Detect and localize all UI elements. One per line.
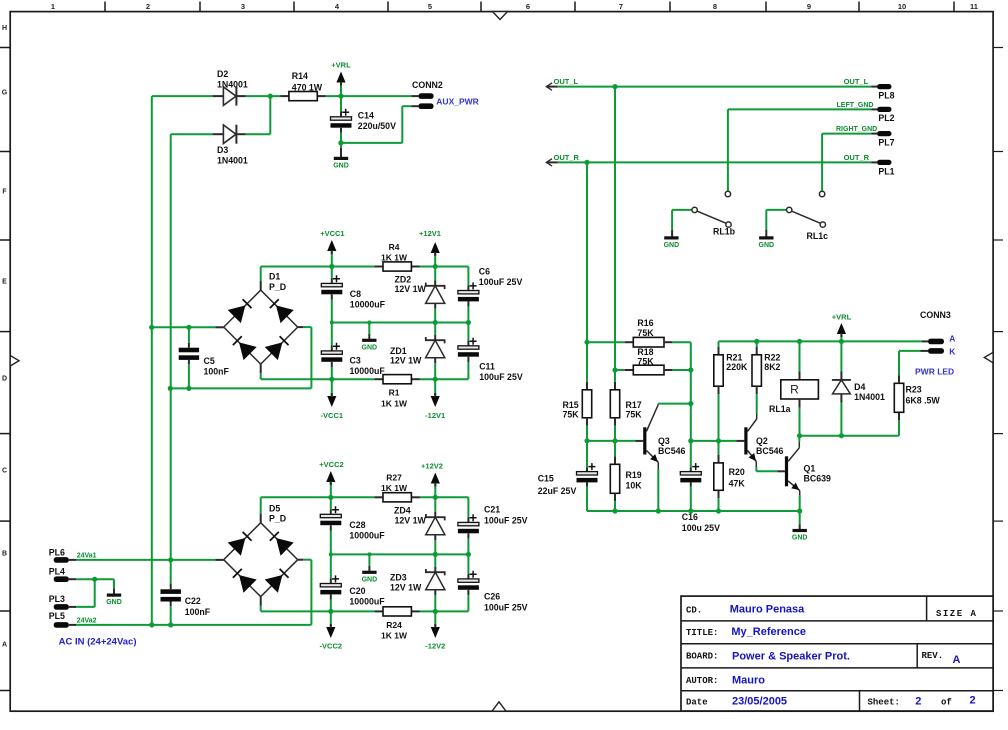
svg-text:8: 8 [713, 2, 717, 11]
resistor R1 1K 1W [375, 375, 420, 409]
capacitor C28 10000uF [320, 497, 385, 554]
wire D2 anode [152, 95, 213, 97]
svg-text:A: A [953, 654, 961, 666]
svg-text:TITLE:: TITLE: [686, 628, 718, 638]
connector PL7 [877, 131, 895, 148]
right edge alignment pointer [984, 352, 993, 363]
diode D3 1N4001 [213, 125, 248, 166]
capacitor C26 100uF 25V [458, 554, 528, 612]
svg-text:1N4001: 1N4001 [217, 80, 248, 90]
svg-text:OUT_R: OUT_R [554, 153, 580, 162]
net label 24Va1 [77, 553, 97, 560]
diode D4 1N4001 [832, 341, 885, 435]
net label K [949, 347, 956, 357]
resistor R27 1K 1W [375, 473, 420, 502]
wire Q3 collector link [658, 403, 691, 406]
svg-text:CONN3: CONN3 [920, 310, 951, 320]
net label OUT_L right [844, 77, 869, 86]
svg-text:C8: C8 [350, 289, 361, 299]
svg-text:RL1a: RL1a [769, 404, 791, 414]
wire Q2 emitter to Q1 base [756, 462, 785, 472]
svg-text:D3: D3 [217, 145, 228, 155]
svg-text:75K: 75K [626, 409, 643, 419]
wire D1 plus to rail [260, 267, 262, 291]
wire OUT_L sense vertical [614, 87, 616, 382]
resistor R17 75K [610, 382, 642, 441]
svg-text:10000uF: 10000uF [350, 366, 386, 376]
svg-text:OUT_R: OUT_R [844, 153, 870, 162]
top center alignment pointer [493, 12, 508, 20]
zener ZD1 12V 1W [390, 323, 445, 380]
svg-text:2: 2 [915, 695, 921, 707]
wire C6 top feed [467, 267, 469, 291]
ground AC input [106, 589, 122, 607]
title block frame [681, 596, 993, 711]
zener ZD2 12V 1W [395, 264, 445, 323]
svg-text:22uF 25V: 22uF 25V [538, 486, 577, 496]
power +VCC1 arrow [320, 229, 344, 269]
power +VRL arrow [331, 61, 351, 97]
resistor R22 8K2 [752, 341, 781, 413]
connector PL5 [49, 611, 76, 627]
wire mid rail GND1 [330, 320, 471, 325]
ground RL1c [759, 210, 775, 249]
svg-text:D2: D2 [217, 69, 228, 79]
svg-text:B: B [2, 551, 7, 558]
power -VCC1 arrow [321, 377, 344, 420]
svg-text:C3: C3 [350, 355, 361, 365]
svg-text:Q2: Q2 [756, 436, 768, 446]
relay coil RL1a [769, 341, 818, 435]
resistor R24 1K 1W [375, 607, 420, 641]
svg-text:100uF 25V: 100uF 25V [479, 277, 523, 287]
connector PL8 [877, 84, 895, 101]
svg-text:-12V1: -12V1 [425, 411, 445, 420]
wire Q2 base rail [691, 438, 745, 443]
svg-text:A: A [2, 642, 7, 649]
svg-text:24Va2: 24Va2 [77, 618, 97, 625]
svg-text:PL6: PL6 [49, 547, 65, 557]
svg-text:C21: C21 [484, 505, 500, 515]
node C14 negative junction [338, 140, 343, 145]
svg-text:75K: 75K [563, 409, 580, 419]
net label RIGHT_GND [836, 126, 877, 133]
capacitor C15 22uF 25V [538, 441, 598, 511]
svg-text:+VRL: +VRL [832, 312, 852, 321]
left edge row ticks [0, 48, 10, 691]
svg-text:10000uF: 10000uF [349, 531, 385, 541]
svg-text:R27: R27 [386, 473, 402, 483]
svg-text:G: G [2, 90, 8, 97]
svg-text:C6: C6 [479, 266, 490, 276]
svg-text:1K 1W: 1K 1W [381, 398, 408, 408]
power -12V2 arrow [425, 609, 445, 651]
svg-text:H: H [2, 25, 7, 32]
wire D3 cathode [246, 133, 270, 135]
svg-text:-VCC2: -VCC2 [320, 642, 343, 651]
wire 24Va2 vertical from D2 anode down to PL5 line [151, 96, 153, 625]
bridge rectifier D5 P_D [224, 503, 298, 596]
ground mid rail 1 [362, 321, 378, 352]
svg-text:GND: GND [362, 344, 378, 351]
svg-text:R16: R16 [637, 318, 653, 328]
svg-text:PL3: PL3 [49, 594, 65, 604]
svg-text:PL7: PL7 [878, 138, 894, 148]
net label LEFT_GND [837, 102, 874, 109]
svg-text:R14: R14 [292, 71, 308, 81]
svg-text:Mauro: Mauro [732, 674, 765, 686]
svg-text:R17: R17 [626, 400, 642, 410]
svg-text:Power & Speaker Prot.: Power & Speaker Prot. [732, 651, 850, 663]
svg-text:GND: GND [792, 535, 808, 542]
svg-text:BC639: BC639 [804, 474, 831, 484]
svg-text:24Va1: 24Va1 [77, 553, 97, 560]
svg-text:100u 25V: 100u 25V [682, 523, 720, 533]
wire PL5 to bridge D5 right [76, 560, 311, 628]
node D2/D3 cathode junction [268, 94, 273, 135]
wire amp bottom rail [587, 508, 800, 513]
relay contact RL1c [766, 191, 828, 241]
wire PL4/PL3 ground tie [76, 577, 114, 607]
svg-text:C26: C26 [484, 592, 500, 602]
svg-text:C5: C5 [204, 356, 215, 366]
svg-text:GND: GND [106, 599, 122, 606]
wire R16/R18 right bus down to C16 [688, 342, 693, 467]
svg-text:A: A [949, 334, 955, 344]
svg-text:12V 1W: 12V 1W [390, 583, 422, 593]
svg-text:AC IN (24+24Vac): AC IN (24+24Vac) [59, 637, 137, 648]
svg-text:Q1: Q1 [804, 464, 816, 474]
title block BOARD row [686, 651, 961, 666]
wire D1 minus to rail [260, 364, 262, 379]
capacitor C21 100uF 25V [458, 505, 528, 555]
svg-text:BOARD:: BOARD: [686, 651, 718, 661]
zener ZD4 12V 1W [394, 495, 445, 555]
svg-text:C20: C20 [349, 586, 365, 596]
capacitor C11 100uF 25V [458, 323, 523, 383]
wire D5 plus to rail [260, 497, 262, 522]
svg-text:ZD3: ZD3 [390, 573, 407, 583]
resistor R23 6K8 .5W [894, 351, 940, 436]
svg-text:3: 3 [241, 2, 245, 11]
svg-text:10000uF: 10000uF [349, 596, 385, 606]
svg-text:23/05/2005: 23/05/2005 [732, 695, 787, 707]
svg-text:R24: R24 [386, 620, 402, 630]
svg-text:R20: R20 [729, 467, 745, 477]
svg-text:SIZE A: SIZE A [936, 609, 977, 619]
bottom center alignment pointer [492, 702, 506, 711]
title block TITLE row [686, 626, 806, 638]
svg-text:D5: D5 [269, 503, 280, 513]
label AC IN (24+24Vac) [59, 637, 137, 648]
svg-text:100uF 25V: 100uF 25V [479, 372, 523, 382]
svg-text:11: 11 [970, 2, 978, 11]
svg-text:C28: C28 [349, 520, 365, 530]
svg-text:GND: GND [362, 576, 378, 583]
svg-text:AUTOR:: AUTOR: [686, 676, 718, 686]
zener ZD3 12V 1W [390, 554, 445, 611]
connector PL2 [877, 107, 895, 123]
net label 24Va2 [77, 618, 97, 625]
svg-text:OUT_L: OUT_L [554, 77, 579, 86]
transistor Q2 BC546 [744, 413, 783, 461]
svg-text:+12V1: +12V1 [419, 229, 441, 238]
svg-text:R23: R23 [906, 385, 922, 395]
svg-text:12V 1W: 12V 1W [395, 284, 427, 294]
svg-text:9: 9 [807, 2, 811, 11]
svg-text:CONN2: CONN2 [412, 80, 443, 90]
svg-text:P_D: P_D [269, 282, 286, 292]
ground mid rail 2 [362, 552, 378, 583]
svg-text:Mauro Penasa: Mauro Penasa [730, 604, 805, 616]
svg-text:F: F [2, 189, 7, 196]
svg-text:PL5: PL5 [49, 611, 65, 621]
svg-text:RL1c: RL1c [807, 231, 829, 241]
svg-text:GND: GND [333, 162, 349, 169]
capacitor C20 10000uF [320, 554, 385, 611]
label PWR LED [915, 367, 954, 377]
title block CD row [686, 604, 977, 620]
node +VRL junction [338, 94, 343, 99]
svg-text:My_Reference: My_Reference [731, 626, 806, 638]
svg-text:1N4001: 1N4001 [217, 156, 248, 166]
transistor Q1 BC639 [785, 448, 831, 491]
wire OUT_R [558, 160, 877, 165]
svg-text:C11: C11 [479, 362, 495, 372]
net label AUX_PWR [436, 97, 479, 107]
wire +VCC1 top rail [261, 266, 469, 268]
wire -VCC2 bottom rail [261, 610, 469, 612]
svg-text:GND: GND [664, 242, 680, 249]
net label OUT_R right [844, 153, 870, 162]
wire OUT_L [558, 84, 877, 89]
svg-text:OUT_L: OUT_L [844, 77, 869, 86]
svg-text:220u/50V: 220u/50V [358, 121, 396, 131]
svg-text:P_D: P_D [269, 514, 286, 524]
svg-text:RL1b: RL1b [713, 227, 736, 237]
resistor R4 1K 1W [375, 242, 420, 271]
diode D2 1N4001 [213, 69, 248, 106]
svg-text:47K: 47K [729, 479, 746, 489]
svg-text:2: 2 [146, 2, 150, 11]
svg-text:470 1W: 470 1W [292, 82, 323, 92]
power -VCC2 arrow [320, 609, 343, 651]
svg-text:C14: C14 [358, 110, 374, 120]
svg-text:REV.: REV. [922, 651, 944, 661]
capacitor C14 220u/50V [331, 96, 397, 143]
svg-text:PL4: PL4 [49, 566, 65, 576]
wire Q3 emitter to rail [657, 462, 659, 511]
svg-text:7: 7 [619, 2, 623, 11]
wire LED cathode [899, 350, 928, 352]
hier label OUT_R left [546, 153, 579, 166]
title block AUTOR row [686, 674, 765, 686]
svg-text:8K2: 8K2 [764, 362, 780, 372]
capacitor C3 10000uF [321, 323, 385, 380]
svg-text:6: 6 [526, 2, 530, 11]
svg-text:Date: Date [686, 697, 708, 707]
wire AC leg upper to bridge left [149, 325, 224, 330]
transistor Q3 BC546 [643, 405, 685, 463]
top edge column ticks [105, 2, 954, 12]
svg-text:-VCC1: -VCC1 [321, 411, 344, 420]
svg-text:R1: R1 [389, 388, 400, 398]
svg-text:+VRL: +VRL [331, 61, 351, 70]
connector CONN2 [412, 80, 443, 109]
connector PL1 [877, 160, 895, 177]
svg-text:BC546: BC546 [658, 446, 685, 456]
power +12V1 arrow [419, 229, 441, 267]
svg-text:PL1: PL1 [878, 166, 894, 176]
svg-text:RIGHT_GND: RIGHT_GND [836, 126, 877, 133]
svg-text:1K 1W: 1K 1W [381, 631, 408, 641]
svg-text:100nF: 100nF [185, 607, 211, 617]
svg-text:5: 5 [428, 2, 432, 11]
svg-text:+VCC1: +VCC1 [320, 229, 344, 238]
hier label OUT_L left [546, 77, 578, 90]
svg-text:E: E [2, 279, 7, 286]
svg-text:100nF: 100nF [204, 367, 230, 377]
wire PL6 to bridge D5 left [76, 557, 224, 562]
svg-text:100uF 25V: 100uF 25V [484, 602, 528, 612]
svg-text:C22: C22 [185, 596, 201, 606]
wire 24Va1 vertical from D3 anode down to C22/PL6 [170, 134, 172, 625]
svg-text:R4: R4 [389, 242, 400, 252]
svg-text:1N4001: 1N4001 [854, 392, 885, 402]
ground RL1b [664, 210, 680, 249]
wire Q3 base rail [584, 438, 643, 443]
svg-text:K: K [949, 347, 956, 357]
power -12V1 arrow [425, 377, 445, 420]
svg-text:C: C [2, 468, 7, 475]
svg-text:PL8: PL8 [878, 91, 894, 101]
svg-text:of: of [941, 697, 952, 707]
svg-text:ZD1: ZD1 [390, 346, 407, 356]
svg-text:+12V2: +12V2 [421, 461, 443, 470]
svg-text:D: D [2, 376, 7, 383]
wire CONN2 pin2 return to C14 [341, 106, 419, 143]
svg-text:10000uF: 10000uF [350, 299, 386, 309]
capacitor C16 100u 25V [680, 463, 720, 533]
connector PL4 [49, 566, 76, 582]
svg-text:12V 1W: 12V 1W [395, 516, 427, 526]
svg-text:1K 1W: 1K 1W [381, 252, 408, 262]
svg-text:2: 2 [970, 695, 976, 707]
resistor R16 75K [584, 318, 690, 347]
wire +VCC2 top rail [261, 496, 469, 498]
svg-text:BC546: BC546 [756, 446, 783, 456]
wire D3 anode [171, 133, 213, 135]
wire Q1 emitter ground [792, 491, 808, 542]
svg-text:75K: 75K [637, 328, 654, 338]
title block Date row [686, 695, 976, 708]
wire C21 top feed [467, 497, 469, 522]
svg-text:CD.: CD. [686, 606, 702, 616]
resistor R18 75K [612, 347, 690, 375]
wire RIGHT_GND [822, 134, 877, 192]
svg-text:C15: C15 [538, 473, 554, 483]
svg-text:D4: D4 [854, 382, 865, 392]
svg-text:C16: C16 [682, 512, 698, 522]
resistor R14 470 1W [281, 71, 326, 101]
svg-text:PWR LED: PWR LED [915, 367, 954, 377]
svg-text:1K 1W: 1K 1W [381, 483, 408, 493]
net label A [949, 334, 955, 344]
resistor R21 220K [714, 341, 748, 441]
connector PL3 [49, 594, 76, 610]
wire D5 minus to rail [260, 597, 262, 612]
resistor R15 75K [563, 382, 592, 441]
wire -VCC1 bottom rail [261, 378, 469, 380]
resistor R20 47K [714, 441, 746, 511]
svg-text:100uF 25V: 100uF 25V [484, 515, 528, 525]
svg-text:75K: 75K [637, 356, 654, 366]
svg-text:R: R [790, 382, 799, 396]
wire R14 to CONN2 pin 1 [326, 95, 419, 97]
power +12V2 arrow [421, 461, 443, 497]
svg-text:ZD4: ZD4 [394, 506, 411, 516]
capacitor C22 100nF [161, 589, 211, 617]
svg-text:220K: 220K [726, 362, 748, 372]
top edge column numbers 1-11 [51, 2, 978, 11]
resistor R19 10K [610, 441, 642, 511]
power +VCC2 arrow [319, 460, 343, 500]
svg-text:Sheet:: Sheet: [868, 697, 900, 707]
left edge alignment pointer [10, 356, 19, 367]
wire LEFT_GND [728, 109, 877, 191]
svg-text:AUX_PWR: AUX_PWR [436, 97, 479, 107]
wire relay low rail [797, 433, 899, 438]
connector CONN3 [920, 310, 951, 354]
wire mid rail GND2 [329, 552, 471, 557]
left edge row letters H-A [2, 25, 8, 649]
svg-text:PL2: PL2 [878, 113, 894, 123]
svg-text:GND: GND [759, 242, 775, 249]
capacitor C8 10000uF [321, 267, 385, 323]
svg-text:1: 1 [51, 2, 55, 11]
wire D2 cathode to R14 [246, 95, 281, 97]
svg-text:6K8 .5W: 6K8 .5W [906, 396, 941, 406]
connector PL6 [49, 547, 76, 562]
svg-text:Q3: Q3 [658, 436, 670, 446]
svg-text:R19: R19 [626, 470, 642, 480]
svg-text:R15: R15 [563, 400, 579, 410]
wire +VRL rail to CONN3 [719, 339, 929, 344]
relay contact RL1b [672, 191, 736, 236]
ground below C14 [333, 143, 349, 170]
svg-text:D1: D1 [269, 272, 280, 282]
power +VRL arrow amp [832, 312, 852, 341]
capacitor C5 100nF [179, 325, 230, 391]
svg-text:-12V2: -12V2 [425, 642, 445, 651]
right edge row ticks [993, 48, 1003, 691]
svg-text:LEFT_GND: LEFT_GND [837, 102, 874, 109]
svg-text:+VCC2: +VCC2 [319, 460, 343, 469]
svg-text:10K: 10K [626, 481, 643, 491]
svg-text:12V 1W: 12V 1W [390, 356, 422, 366]
bridge rectifier D1 P_D [224, 272, 298, 365]
capacitor C6 100uF 25V [458, 266, 523, 322]
wire OUT_R sense vertical [586, 162, 588, 381]
svg-text:10: 10 [898, 2, 906, 11]
wire Q1 collector to relay rail [798, 436, 800, 448]
wire AC leg lower to bridge right [168, 327, 312, 391]
